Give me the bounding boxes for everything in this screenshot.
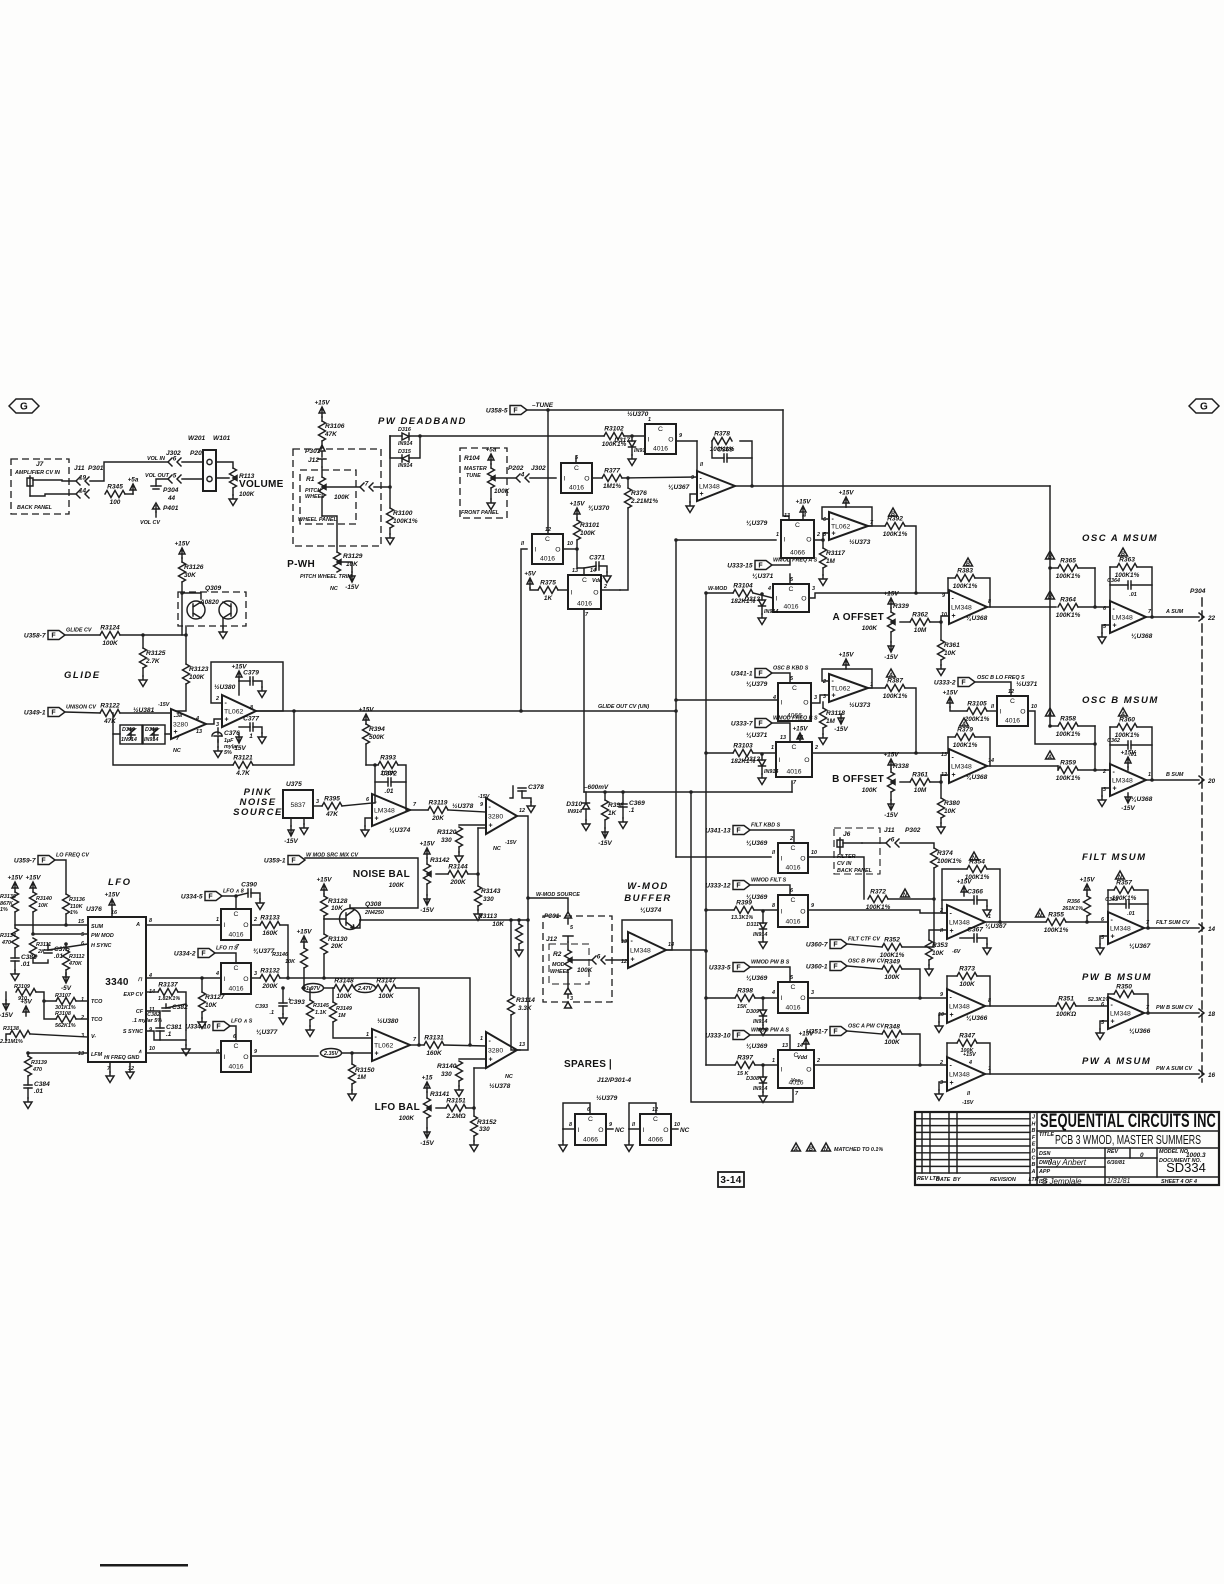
svg-text:FILT SUM CV: FILT SUM CV <box>1156 920 1190 926</box>
svg-text:TUNE: TUNE <box>466 473 481 479</box>
svg-text:18: 18 <box>1208 1011 1216 1018</box>
svg-text:-15V: -15V <box>420 1140 434 1147</box>
wire <box>1057 766 1059 770</box>
svg-text:C: C <box>234 1043 239 1050</box>
svg-text:9: 9 <box>811 903 814 909</box>
svg-text:100K1%: 100K1% <box>1056 731 1081 738</box>
svg-text:10M: 10M <box>914 787 927 794</box>
capacitor C377 <box>250 723 253 731</box>
svg-text:R3102: R3102 <box>604 426 624 433</box>
svg-text:TL062: TL062 <box>224 709 243 716</box>
svg-text:U349-1: U349-1 <box>24 710 46 717</box>
wire <box>511 1015 520 1050</box>
svg-text:+5a: +5a <box>128 477 139 484</box>
resistor R3138 <box>10 1031 30 1038</box>
ground D313 <box>758 614 766 625</box>
svg-text:I: I <box>535 547 537 554</box>
wire <box>592 477 602 479</box>
svg-text:D309: D309 <box>746 1009 759 1015</box>
svg-text:+15V: +15V <box>314 400 330 407</box>
svg-text:WMOD PW A S: WMOD PW A S <box>751 1028 789 1034</box>
svg-text:I: I <box>1000 709 1002 716</box>
diode D318 1N914 <box>143 725 165 744</box>
ground C385 <box>11 970 19 981</box>
svg-text:TL062: TL062 <box>374 1043 393 1050</box>
wire <box>282 988 284 1003</box>
wire <box>985 1005 1056 1007</box>
svg-text:-15V: -15V <box>284 838 298 845</box>
svg-text:U359-1: U359-1 <box>264 858 286 865</box>
diode D316 IN914 <box>402 433 409 440</box>
svg-text:C: C <box>588 1116 593 1123</box>
wire <box>342 1052 372 1054</box>
capacitor C371 <box>596 562 599 570</box>
svg-text:-15V: -15V <box>478 794 490 800</box>
connector J302/P202 pin 5 <box>168 475 181 483</box>
svg-text:R3111: R3111 <box>36 942 51 948</box>
wire switch B out <box>812 752 948 754</box>
svg-text:1: 1 <box>648 417 651 423</box>
svg-text:100KΩ: 100KΩ <box>1056 1011 1076 1018</box>
wire diode in <box>113 713 120 734</box>
resistor R3112 <box>63 950 70 970</box>
pot R2 MOD WHEEL box <box>549 944 589 984</box>
svg-text:1.82K1%: 1.82K1% <box>158 996 180 1002</box>
wire <box>676 440 697 442</box>
svg-text:-15V: -15V <box>834 726 848 733</box>
ground C378 <box>527 802 535 813</box>
svg-text:20: 20 <box>1207 778 1216 785</box>
svg-text:D308: D308 <box>746 1076 759 1082</box>
wire J7 tip <box>33 480 75 481</box>
svg-text:6: 6 <box>891 837 895 844</box>
wire <box>985 1073 1199 1075</box>
svg-text:7: 7 <box>365 481 369 488</box>
wire <box>436 1107 446 1109</box>
svg-text:P301: P301 <box>88 465 104 472</box>
wire to FILT switch <box>676 856 771 858</box>
wire <box>604 792 606 800</box>
wire <box>987 710 997 712</box>
svg-text:C: C <box>234 911 239 918</box>
wire <box>181 558 183 562</box>
wire tune drop 2 <box>783 410 789 520</box>
svg-text:1: 1 <box>1148 772 1151 778</box>
svg-text:R363: R363 <box>1119 557 1135 564</box>
svg-text:R3140: R3140 <box>36 896 52 902</box>
svg-text:4.7K: 4.7K <box>235 770 250 777</box>
wire <box>940 782 942 798</box>
wire stub B <box>706 752 733 754</box>
svg-text:N: N <box>903 893 907 899</box>
svg-text:OSC A MSUM: OSC A MSUM <box>1082 533 1158 544</box>
svg-text:NC: NC <box>173 748 181 754</box>
resistor R3125 <box>140 648 147 668</box>
svg-text:BUFFER: BUFFER <box>624 893 672 904</box>
svg-text:R3137: R3137 <box>158 982 178 989</box>
wire <box>426 884 428 895</box>
svg-text:WHEEL PANEL: WHEEL PANEL <box>298 517 337 523</box>
svg-text:IN914: IN914 <box>764 609 778 615</box>
svg-text:160K: 160K <box>426 1050 442 1057</box>
svg-text:6: 6 <box>173 456 177 463</box>
ground D310 <box>582 820 590 831</box>
svg-text:C363: C363 <box>1105 897 1118 903</box>
svg-text:2: 2 <box>253 917 257 923</box>
wire switch to glide line <box>521 549 527 711</box>
svg-text:LM348: LM348 <box>1110 926 1131 933</box>
wire R377 to U367 <box>622 477 697 478</box>
op-amp U367 LM348 filt msum <box>1108 912 1144 944</box>
svg-text:14: 14 <box>79 488 87 495</box>
wire <box>563 548 577 550</box>
wire <box>109 1062 111 1072</box>
wire <box>939 1082 947 1090</box>
wire <box>671 1128 678 1130</box>
svg-text:+15V: +15V <box>838 652 854 659</box>
ground R3125 <box>139 676 147 687</box>
revision table <box>1030 1112 1037 1185</box>
svg-text:2: 2 <box>603 584 607 590</box>
svg-text:R3123: R3123 <box>189 666 209 673</box>
svg-text:+15V: +15V <box>883 591 899 598</box>
power U380 <box>236 671 242 681</box>
svg-text:U341-13: U341-13 <box>705 828 731 835</box>
svg-text:0: 0 <box>1140 1152 1144 1159</box>
svg-text:10: 10 <box>149 1046 155 1052</box>
svg-text:R3112: R3112 <box>69 954 84 960</box>
flag U334-5 LFO A8 <box>205 892 222 901</box>
wire <box>5 992 7 1000</box>
svg-text:U341-1: U341-1 <box>731 671 753 678</box>
svg-text:2: 2 <box>816 1058 820 1064</box>
svg-text:3: 3 <box>216 722 219 728</box>
ground D312 <box>758 774 766 785</box>
wire <box>1078 769 1110 771</box>
resistor R3111 <box>30 938 37 958</box>
svg-text:47K: 47K <box>325 811 338 818</box>
svg-text:REV: REV <box>1107 1149 1118 1155</box>
wire <box>761 594 763 600</box>
svg-text:A: A <box>1031 1169 1036 1175</box>
wire <box>1144 1012 1199 1014</box>
ground C376 <box>214 747 222 758</box>
svg-text:30K: 30K <box>184 572 196 579</box>
svg-text:-15V: -15V <box>158 702 170 708</box>
svg-text:.1: .1 <box>270 1010 275 1016</box>
wire <box>321 441 323 448</box>
svg-text:–TUNE: –TUNE <box>532 402 554 409</box>
wire <box>929 930 947 940</box>
svg-text:14: 14 <box>1208 926 1216 933</box>
connector J11/P301 pin 14 <box>76 490 89 498</box>
svg-text:C: C <box>792 685 797 692</box>
svg-text:R3132: R3132 <box>260 968 280 975</box>
svg-text:R349: R349 <box>884 959 900 966</box>
wire <box>624 435 645 437</box>
svg-text:R3143: R3143 <box>481 888 501 895</box>
wire R376 to switch <box>620 508 628 590</box>
ground D308 <box>759 1092 767 1103</box>
svg-text:R398: R398 <box>608 802 624 809</box>
connector wheel 6 <box>592 956 605 964</box>
svg-text:½U380: ½U380 <box>377 1017 399 1025</box>
svg-text:¼U366: ¼U366 <box>1129 1028 1151 1035</box>
svg-text:C366: C366 <box>967 889 983 896</box>
svg-text:R365: R365 <box>1060 558 1076 565</box>
wire vol in <box>90 462 168 481</box>
wire volume wiper <box>216 478 229 479</box>
svg-text:NOISE BAL: NOISE BAL <box>353 869 410 880</box>
ground R380 <box>937 823 945 834</box>
wire <box>323 894 325 896</box>
svg-text:R356: R356 <box>1067 899 1081 905</box>
svg-text:R3149: R3149 <box>336 1006 352 1012</box>
svg-text:IN914: IN914 <box>398 463 412 469</box>
svg-text:I: I <box>779 757 781 764</box>
svg-text:C: C <box>791 897 796 904</box>
svg-text:W101: W101 <box>213 435 231 442</box>
svg-text:1: 1 <box>249 733 253 740</box>
svg-text:J302: J302 <box>531 465 546 472</box>
wire <box>1078 725 1095 727</box>
svg-text:100K: 100K <box>961 1048 975 1054</box>
wire to volume pot <box>216 462 233 468</box>
svg-text:¼U369: ¼U369 <box>746 975 768 982</box>
wire <box>762 930 764 938</box>
svg-text:O: O <box>663 1127 668 1134</box>
svg-text:4016: 4016 <box>785 1005 800 1012</box>
diode D310 IN914 <box>583 803 590 809</box>
svg-text:O: O <box>668 437 673 444</box>
svg-text:LM348: LM348 <box>630 948 651 955</box>
resistor R3121 <box>233 762 253 769</box>
svg-text:A: A <box>793 1147 798 1153</box>
wire <box>389 487 391 508</box>
svg-text:G: G <box>1200 402 1208 413</box>
svg-text:B: B <box>1048 555 1052 561</box>
svg-text:R3127: R3127 <box>205 994 225 1001</box>
svg-text:R3135: R3135 <box>0 894 17 900</box>
svg-text:F: F <box>961 680 966 687</box>
svg-text:O: O <box>593 590 598 597</box>
resistors left of 3340 <box>12 882 18 892</box>
svg-text:PW DEADBAND: PW DEADBAND <box>378 416 467 427</box>
svg-text:1: 1 <box>772 1058 775 1064</box>
svg-text:U351-7: U351-7 <box>806 1029 828 1036</box>
wire <box>599 566 607 572</box>
potentiometer R113 VOLUME <box>230 468 237 488</box>
svg-text:R345: R345 <box>107 484 123 491</box>
svg-text:2: 2 <box>939 1060 943 1066</box>
svg-text:U333-7: U333-7 <box>731 721 753 728</box>
svg-text:C393: C393 <box>255 1004 268 1010</box>
svg-text:F: F <box>758 671 763 678</box>
wire <box>510 786 513 798</box>
svg-text:LTR: LTR <box>1028 1177 1038 1183</box>
svg-text:W-MOD SOURCE: W-MOD SOURCE <box>536 892 580 898</box>
wire <box>1102 625 1110 633</box>
svg-text:4016: 4016 <box>783 604 798 611</box>
svg-text:TL062: TL062 <box>831 686 850 693</box>
svg-text:R347: R347 <box>959 1033 975 1040</box>
flag U341-13 FILT KBD S <box>733 826 750 835</box>
svg-text:LM348: LM348 <box>1112 615 1133 622</box>
svg-text:MASTER: MASTER <box>464 466 487 472</box>
wire <box>473 1136 475 1141</box>
wire wiper out <box>326 486 360 488</box>
op-amp U348 LM348 pwa <box>947 1057 985 1091</box>
wire -600mV rail <box>584 791 792 793</box>
svg-text:R3104: R3104 <box>733 583 753 590</box>
wire <box>948 736 955 738</box>
svg-text:14: 14 <box>668 942 674 948</box>
svg-text:F: F <box>51 633 56 640</box>
svg-text:2: 2 <box>1102 769 1106 775</box>
resistor R351 <box>1056 1003 1076 1010</box>
wire <box>977 976 990 1006</box>
wire <box>239 680 250 682</box>
svg-text:+: + <box>952 613 956 620</box>
svg-text:I: I <box>578 1127 580 1134</box>
wire <box>459 1058 486 1060</box>
svg-text:¼U368: ¼U368 <box>1131 796 1153 803</box>
wire <box>14 912 16 928</box>
wire <box>333 1022 372 1038</box>
wire 4066A out <box>814 533 829 540</box>
wire <box>942 899 974 901</box>
wire <box>65 914 67 925</box>
capacitor C378 <box>518 788 526 791</box>
svg-text:.1 mylar 5%: .1 mylar 5% <box>132 1018 162 1024</box>
flag U359-1 W MOD SRC MIX CV <box>288 856 305 865</box>
svg-text:4: 4 <box>520 472 525 479</box>
svg-text:½U378: ½U378 <box>452 802 474 810</box>
svg-text:R3131: R3131 <box>424 1035 444 1042</box>
flag U333-5 WMOD PW B S <box>733 963 750 972</box>
svg-text:R3145: R3145 <box>313 1003 330 1009</box>
svg-text:–600mV: –600mV <box>584 784 609 791</box>
transistor pair Q309 A0820 <box>178 592 246 626</box>
svg-text:22: 22 <box>1207 615 1216 622</box>
svg-text:.01: .01 <box>21 961 30 968</box>
wire <box>947 1042 957 1044</box>
svg-text:LM348: LM348 <box>949 1072 970 1079</box>
svg-text:+15V: +15V <box>1120 750 1136 757</box>
wire <box>426 1118 428 1128</box>
analog switch U370 4016 b <box>645 424 676 454</box>
svg-text:¼U371: ¼U371 <box>752 573 774 580</box>
flag U334-10 LFO A S <box>213 1022 230 1031</box>
svg-text:F: F <box>833 964 838 971</box>
svg-text:P-WH: P-WH <box>287 559 315 570</box>
wire switch A out <box>809 593 948 598</box>
wire <box>217 740 219 747</box>
wire <box>76 1018 88 1020</box>
wire <box>567 942 569 950</box>
svg-text:+: + <box>950 1012 954 1019</box>
wire <box>27 1076 29 1085</box>
svg-text:8: 8 <box>569 1122 572 1128</box>
svg-text:100K1%: 100K1% <box>937 858 962 865</box>
svg-text:WMOD PW B S: WMOD PW B S <box>751 960 790 966</box>
svg-text:FILT MSUM: FILT MSUM <box>1082 852 1147 863</box>
svg-text:14: 14 <box>590 568 596 574</box>
resistor R3152 <box>472 1106 476 1110</box>
svg-text:I: I <box>571 590 573 597</box>
capacitor C375 <box>44 950 52 953</box>
svg-text:LM348: LM348 <box>951 605 972 612</box>
wire <box>890 792 892 800</box>
power -15V noise bal <box>424 895 430 905</box>
svg-text:+: + <box>700 491 704 498</box>
svg-text:B: B <box>1048 595 1052 601</box>
svg-text:3: 3 <box>254 971 257 977</box>
wire <box>622 792 624 804</box>
ground R3152 <box>470 1141 478 1152</box>
svg-text:R3100: R3100 <box>393 510 413 517</box>
wire <box>518 944 520 950</box>
svg-text:562K1%: 562K1% <box>55 1023 76 1029</box>
transistor Q308 2N4250 <box>321 884 327 894</box>
svg-text:3280: 3280 <box>488 814 503 821</box>
wire <box>230 1026 236 1041</box>
svg-text:2: 2 <box>816 532 820 538</box>
svg-text:9: 9 <box>254 1049 257 1055</box>
svg-text:R3136: R3136 <box>69 897 86 903</box>
svg-text:52.3K1%: 52.3K1% <box>1088 997 1110 1003</box>
resistor R3134 <box>12 928 19 948</box>
wire to 4066 A <box>676 539 776 541</box>
resistor R3102 <box>604 433 624 440</box>
svg-text:SD334: SD334 <box>1166 1160 1206 1175</box>
svg-text:VOL IN: VOL IN <box>147 456 165 462</box>
svg-text:P304: P304 <box>163 487 179 494</box>
svg-text:II: II <box>700 462 703 468</box>
svg-text:F: F <box>736 1033 741 1040</box>
connector J7 back panel box <box>11 459 69 514</box>
wire <box>946 976 948 998</box>
svg-text:500K: 500K <box>369 734 385 741</box>
wire <box>754 909 778 911</box>
ground C379 <box>258 687 266 698</box>
wire <box>1110 726 1117 728</box>
resistor R3106 <box>319 421 326 441</box>
svg-text:R351: R351 <box>1058 996 1074 1003</box>
svg-text:A SUM: A SUM <box>1165 609 1184 615</box>
wire <box>1108 903 1126 905</box>
sheet reference 3-14 <box>718 1172 744 1187</box>
wire <box>146 1011 160 1028</box>
wire glide out bus <box>294 710 676 712</box>
wire <box>256 710 294 712</box>
svg-text:4016: 4016 <box>786 769 801 776</box>
wire <box>351 1053 353 1064</box>
power -15V B offset <box>888 800 894 810</box>
svg-text:100K1%: 100K1% <box>965 874 990 881</box>
svg-text:9: 9 <box>940 992 943 998</box>
analog switch U377 4016 c <box>221 1041 251 1072</box>
wire <box>606 1128 613 1130</box>
wire <box>940 660 942 665</box>
svg-text:200K1%: 200K1% <box>964 716 990 723</box>
svg-text:D310: D310 <box>566 801 582 808</box>
svg-text:R3142: R3142 <box>430 857 450 864</box>
svg-text:+15V: +15V <box>7 875 23 882</box>
wire <box>389 528 391 534</box>
wire PW MOD row <box>33 912 88 934</box>
svg-text:¼U379: ¼U379 <box>746 520 768 527</box>
